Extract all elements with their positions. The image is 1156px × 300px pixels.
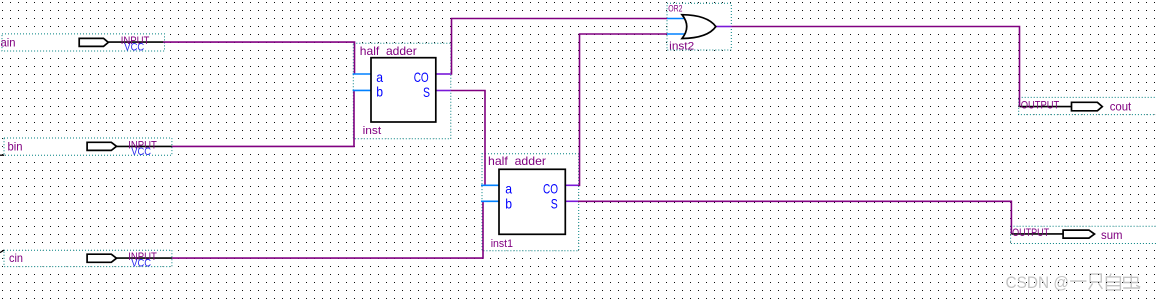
wire U1.S to U2.a (451, 91, 485, 186)
selection box OR2 gate (667, 3, 731, 50)
svg-text:OUTPUT: OUTPUT (1012, 227, 1049, 239)
svg-text:VCC: VCC (124, 42, 144, 54)
U2 pin stub b (481, 200, 499, 202)
svg-text:S: S (551, 196, 558, 212)
output pin symbol sum (1011, 230, 1094, 238)
selection box input cin (4, 250, 172, 266)
selection box output sum (1011, 226, 1156, 243)
svg-text:inst: inst (363, 125, 382, 137)
wire U1.CO to OR2 input 1 (451, 19, 667, 75)
U1 pin stub CO (436, 73, 451, 75)
U2 pin stub CO (565, 184, 578, 186)
svg-text:ain: ain (1, 35, 16, 49)
svg-text:a: a (376, 69, 383, 85)
svg-text:VCC: VCC (131, 146, 151, 158)
svg-text:b: b (505, 195, 512, 211)
OR2 output stub (716, 26, 732, 28)
selection box output cout (1019, 97, 1156, 114)
U1 pin stub b (353, 89, 371, 91)
svg-text:half adder: half adder (488, 154, 546, 168)
svg-text:bin: bin (8, 140, 23, 154)
watermark CSDN (1006, 273, 1141, 292)
wire ain to U1.a (163, 42, 355, 74)
U1 pin stub S (436, 90, 451, 92)
wire bin to U1.b (172, 90, 354, 146)
OR2 gate body (682, 15, 716, 39)
input pin symbol ain (79, 38, 163, 46)
half adder U2 body (499, 169, 565, 234)
svg-text:inst2: inst2 (669, 40, 694, 52)
U1 pin stub a (353, 73, 371, 75)
selection box input bin (4, 138, 172, 155)
selection box half adder U1 (353, 43, 451, 139)
U2 pin stub a (481, 184, 499, 186)
svg-text:CO: CO (414, 69, 429, 85)
sheet border tick near cin (0, 250, 4, 253)
OR2 input stub 1 (667, 18, 685, 20)
svg-text:a: a (505, 180, 512, 196)
output pin symbol cout (1020, 102, 1103, 111)
wire U2.CO to OR2 input 2 (578, 34, 667, 185)
svg-text:CO: CO (543, 181, 558, 197)
wire U2.S to sum (578, 201, 1011, 234)
svg-text:b: b (376, 84, 383, 100)
input pin symbol bin (87, 142, 172, 150)
svg-text:OUTPUT: OUTPUT (1021, 99, 1060, 111)
svg-text:S: S (423, 84, 430, 100)
svg-text:cin: cin (9, 251, 23, 265)
OR2 input stub 2 (667, 33, 685, 35)
svg-text:half adder: half adder (360, 44, 417, 58)
U2 pin stub S (565, 200, 578, 202)
svg-text:inst1: inst1 (491, 238, 513, 250)
input pin symbol cin (87, 254, 172, 262)
svg-text:sum: sum (1101, 228, 1123, 242)
wire OR2 output to cout (731, 27, 1019, 107)
selection box half adder U2 (482, 154, 579, 251)
svg-text:VCC: VCC (131, 258, 151, 270)
wire cin to U2.b (172, 201, 483, 258)
svg-text:cout: cout (1110, 100, 1132, 114)
half adder U1 body (371, 58, 436, 122)
selection box input ain (2, 34, 165, 51)
svg-text:OR2: OR2 (668, 3, 682, 13)
sheet border tick near bin (0, 154, 4, 156)
